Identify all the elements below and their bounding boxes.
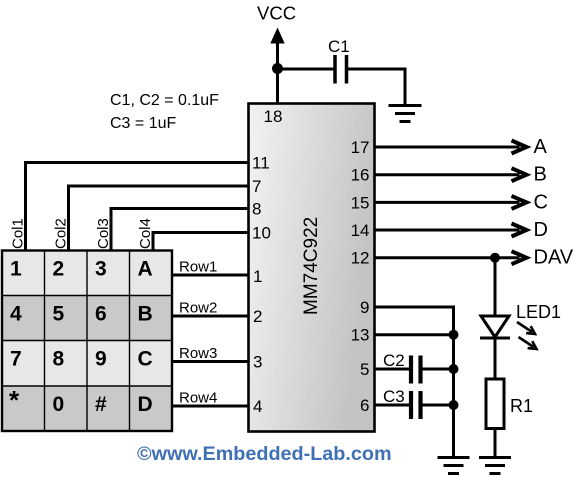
svg-text:4: 4 xyxy=(253,397,262,416)
wire Col3 to pin 8 xyxy=(111,209,250,251)
ground (bus) xyxy=(438,458,470,474)
svg-text:C3 = 1uF: C3 = 1uF xyxy=(110,115,176,132)
svg-text:C3: C3 xyxy=(383,387,405,406)
junction C3 node xyxy=(449,400,459,410)
wire Row1 to pin 1 xyxy=(172,274,250,277)
svg-text:9: 9 xyxy=(95,348,107,371)
wire Row3 to pin 3 xyxy=(172,360,250,363)
svg-text:14: 14 xyxy=(351,221,370,240)
wire VCC node to C1 xyxy=(278,68,334,71)
svg-text:MM74C922: MM74C922 xyxy=(301,217,322,315)
svg-text:2: 2 xyxy=(253,307,262,326)
svg-text:13: 13 xyxy=(351,326,370,345)
svg-text:5: 5 xyxy=(360,360,369,379)
svg-text:16: 16 xyxy=(351,166,370,185)
svg-text:VCC: VCC xyxy=(257,3,296,24)
svg-text:11: 11 xyxy=(252,154,270,173)
svg-text:6: 6 xyxy=(360,396,369,415)
svg-text:D: D xyxy=(138,393,153,416)
junction DAV node xyxy=(490,253,500,263)
wire Col4 to pin 10 xyxy=(153,233,250,251)
svg-text:Row2: Row2 xyxy=(179,300,217,317)
wire R1 to ground xyxy=(494,429,497,458)
svg-text:8: 8 xyxy=(252,200,261,219)
svg-text:B: B xyxy=(534,164,547,186)
capacitor C1 xyxy=(335,55,347,84)
svg-text:Row1: Row1 xyxy=(179,259,217,276)
svg-text:R1: R1 xyxy=(510,396,533,416)
svg-text:3: 3 xyxy=(253,353,262,372)
svg-text:C: C xyxy=(534,191,548,213)
wire pin 14 to D xyxy=(374,224,527,237)
svg-text:17: 17 xyxy=(351,138,370,157)
wire pin 6 to C3 xyxy=(374,404,410,407)
svg-text:1: 1 xyxy=(10,258,22,281)
svg-text:6: 6 xyxy=(95,303,107,326)
svg-text:9: 9 xyxy=(360,298,369,317)
wire C2 to bus xyxy=(422,368,454,371)
wire Row4 to pin 4 xyxy=(172,405,250,408)
wire pin 16 to B xyxy=(374,168,527,181)
svg-text:2: 2 xyxy=(53,258,65,281)
junction pin 13 node xyxy=(449,330,459,340)
svg-text:B: B xyxy=(138,303,153,326)
wire pin 13 to bus xyxy=(374,333,454,336)
svg-text:Row3: Row3 xyxy=(179,345,217,362)
svg-text:5: 5 xyxy=(53,303,65,326)
svg-text:DAV: DAV xyxy=(534,247,574,269)
svg-text:7: 7 xyxy=(252,177,261,196)
svg-text:18: 18 xyxy=(264,107,283,126)
wire DAV node to LED1 xyxy=(494,258,497,317)
VCC symbol (arrow) xyxy=(270,28,284,69)
svg-text:4: 4 xyxy=(10,303,22,326)
svg-text:LED1: LED1 xyxy=(516,302,561,322)
ground (C1) xyxy=(389,106,422,122)
resistor R1 xyxy=(486,379,504,429)
svg-text:*: * xyxy=(9,385,20,415)
svg-text:A: A xyxy=(138,258,153,281)
svg-text:A: A xyxy=(534,136,548,158)
svg-text:0: 0 xyxy=(53,393,65,416)
wire pin 15 to C xyxy=(374,196,527,209)
junction VCC node xyxy=(272,63,283,74)
wire Row2 to pin 2 xyxy=(172,315,250,318)
wire pin 17 to A xyxy=(374,141,527,154)
wire VCC node to pin 18 xyxy=(276,69,279,105)
svg-text:12: 12 xyxy=(351,249,370,268)
svg-text:Col3: Col3 xyxy=(95,218,112,249)
svg-text:3: 3 xyxy=(95,258,107,281)
wire pin 5 to C2 xyxy=(374,368,410,371)
svg-text:C1, C2 = 0.1uF: C1, C2 = 0.1uF xyxy=(110,92,219,109)
svg-text:10: 10 xyxy=(252,224,271,243)
svg-text:#: # xyxy=(95,393,107,416)
junction C2 node xyxy=(449,364,459,374)
wire pin 9 to capacitor bus and ground xyxy=(374,307,454,458)
ground (R1) xyxy=(479,458,511,474)
svg-text:Col2: Col2 xyxy=(53,218,70,249)
svg-text:C2: C2 xyxy=(383,351,405,370)
wire LED1 to R1 xyxy=(494,338,497,379)
svg-text:C1: C1 xyxy=(328,37,350,56)
svg-text:D: D xyxy=(534,219,548,241)
capacitor C3 xyxy=(411,391,421,419)
wire pin 12 to DAV xyxy=(374,251,527,264)
svg-text:C: C xyxy=(138,348,153,371)
svg-text:8: 8 xyxy=(53,348,65,371)
wire Col1 to pin 11 xyxy=(26,163,251,251)
capacitor C2 xyxy=(411,356,421,384)
wire C3 to bus xyxy=(422,404,454,407)
svg-text:7: 7 xyxy=(10,348,22,371)
svg-text:Col4: Col4 xyxy=(137,218,154,249)
svg-text:©www.Embedded-Lab.com: ©www.Embedded-Lab.com xyxy=(137,443,392,465)
keypad 4x4 matrix xyxy=(2,251,172,432)
LED LED1 xyxy=(480,316,537,349)
svg-text:1: 1 xyxy=(253,267,262,286)
wire Col2 to pin 7 xyxy=(69,186,251,251)
wire C1 to ground xyxy=(348,69,405,105)
svg-text:Col1: Col1 xyxy=(10,218,27,249)
svg-text:Row4: Row4 xyxy=(179,390,217,407)
svg-text:15: 15 xyxy=(351,193,370,212)
IC U1 MM74C922 xyxy=(249,104,375,432)
